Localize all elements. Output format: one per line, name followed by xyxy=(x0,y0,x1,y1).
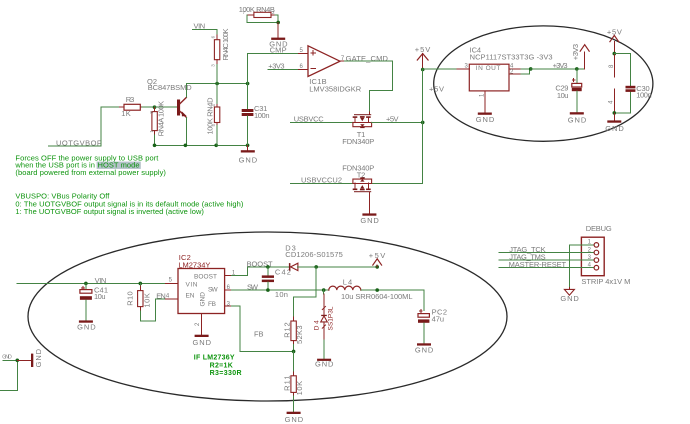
node base junction xyxy=(153,105,157,109)
svg-text:GND: GND xyxy=(200,292,207,307)
ground below C30 xyxy=(605,113,624,133)
node +5V junction xyxy=(421,68,425,72)
svg-text:NCP1117ST33T3G -3V3: NCP1117ST33T3G -3V3 xyxy=(470,52,553,61)
node emitter junction xyxy=(184,144,188,148)
svg-text:GND: GND xyxy=(315,360,334,369)
power +5V arrow top xyxy=(415,45,431,69)
svg-text:RN4A 100K: RN4A 100K xyxy=(157,101,166,137)
svg-text:RN4C 100K: RN4C 100K xyxy=(221,29,230,61)
node T1 rail junction xyxy=(421,121,425,125)
connector DEBUG STRIP 4x1V M xyxy=(581,224,630,286)
transistor Q2 xyxy=(147,77,192,117)
power +3V3 arrow xyxy=(571,44,589,69)
wire RN4C to junction xyxy=(216,64,218,83)
node RN4B junction xyxy=(276,21,280,25)
ground below D4 xyxy=(315,359,334,369)
resistor RN4C xyxy=(210,29,229,67)
wire CMP rail xyxy=(247,54,249,84)
ground below C41 xyxy=(77,320,96,331)
svg-text:GND: GND xyxy=(77,323,96,332)
svg-text:47u: 47u xyxy=(432,314,445,323)
capacitor C41 xyxy=(80,283,108,320)
svg-text:1K: 1K xyxy=(121,109,131,118)
svg-text:10u: 10u xyxy=(94,292,106,301)
ground far-left rotated xyxy=(17,348,43,367)
wire FB xyxy=(231,306,293,351)
wire L4 to PC2 xyxy=(361,290,424,310)
node IC4 out junction xyxy=(529,67,533,71)
regulator IC2 LM2734Y xyxy=(166,253,236,335)
ground arrow debug xyxy=(560,288,579,303)
wire base xyxy=(155,106,178,108)
svg-text:GND: GND xyxy=(568,115,587,124)
resistor RN4B xyxy=(239,5,275,17)
ground below RN4B xyxy=(269,22,288,48)
node C31 bottom xyxy=(246,144,250,148)
resistor R11 xyxy=(283,351,305,411)
svg-text:10u: 10u xyxy=(557,91,569,100)
ground below PC2 xyxy=(415,343,434,354)
svg-text:IN OUT: IN OUT xyxy=(476,65,501,72)
svg-text:DEBUG: DEBUG xyxy=(586,224,612,233)
node C42 top junction xyxy=(266,265,270,269)
wire Q2 emitter xyxy=(185,118,187,146)
node collector/C31 xyxy=(246,82,250,86)
wire USBVCCU2 to T2 xyxy=(291,182,353,184)
wire R3 to base node xyxy=(142,106,155,108)
diode D3 xyxy=(285,243,343,270)
svg-text:GND: GND xyxy=(605,124,624,133)
SECTION: top-left comparator circuit xyxy=(48,5,298,164)
node R10 junction xyxy=(139,282,143,286)
wire +5V to IC4 input xyxy=(423,68,458,70)
power +5V arrow C30 xyxy=(607,27,622,53)
svg-text:R2=1K: R2=1K xyxy=(210,362,233,369)
SECTION: right ellipse regulator xyxy=(423,26,653,141)
node +5V corner junction xyxy=(375,265,379,269)
svg-text:L4: L4 xyxy=(343,277,353,286)
svg-text:(board powered from external p: (board powered from external power suppl… xyxy=(15,168,166,177)
svg-text:GND: GND xyxy=(193,338,212,347)
resistor R10 xyxy=(126,283,152,320)
svg-text:GND: GND xyxy=(360,216,379,225)
op-amp IC1B xyxy=(298,46,361,94)
ground below IC2 xyxy=(193,335,212,348)
capacitor C42 xyxy=(262,267,291,299)
svg-text:R3=330R: R3=330R xyxy=(210,370,242,377)
wire MASTER-RESET xyxy=(499,267,581,269)
wire Q2 collector xyxy=(185,84,187,98)
wire pin1 to gnd xyxy=(569,245,581,288)
wire IC4 out pins join xyxy=(521,69,531,74)
SECTION: comments xyxy=(14,153,244,216)
resistor RN4D xyxy=(206,84,220,146)
svg-text:SW: SW xyxy=(208,286,219,293)
capacitor C30 xyxy=(614,54,651,113)
wire R10 to EN xyxy=(140,299,165,321)
svg-text:CMP: CMP xyxy=(270,46,287,55)
wire CMP xyxy=(248,53,299,55)
transistor T2 FDN340P xyxy=(342,164,374,198)
wire GATE_CMD to T1 gate xyxy=(345,61,393,112)
capacitor C29 xyxy=(555,69,581,112)
svg-text:+5V: +5V xyxy=(386,114,399,123)
svg-text:GND: GND xyxy=(476,115,495,124)
pin 4 IC1 power xyxy=(609,89,615,113)
highlight ellipse around LDO xyxy=(434,26,653,141)
svg-text:10K: 10K xyxy=(142,293,151,308)
transistor T1 FDN340P xyxy=(342,112,374,146)
wire RN4B loop to ground xyxy=(247,15,278,23)
resistor R3 xyxy=(120,95,142,118)
ground below C31 xyxy=(239,145,258,164)
svg-text:VIN: VIN xyxy=(95,276,107,285)
node IC1 pin8 junction xyxy=(613,52,617,56)
node L4 out junction xyxy=(375,288,379,292)
svg-text:R10: R10 xyxy=(126,291,135,306)
svg-text:BOOST: BOOST xyxy=(194,274,217,281)
svg-text:100n: 100n xyxy=(636,91,652,100)
SECTION: debug connector xyxy=(499,224,630,303)
svg-text:CD1206-S01575: CD1206-S01575 xyxy=(285,250,343,259)
node C42 bottom junction xyxy=(266,288,270,292)
pin 2 xyxy=(581,247,598,255)
capacitor C31 xyxy=(242,84,270,146)
node IC1 pin4 junction xyxy=(613,111,617,115)
ground below R11 xyxy=(285,412,304,424)
power +5V arrow buck xyxy=(369,251,386,267)
SECTION: op-amp and mosfets xyxy=(291,45,431,225)
svg-text:C42: C42 xyxy=(275,267,291,276)
wire D3 cathode to +5V xyxy=(297,266,377,268)
svg-text:SW: SW xyxy=(247,283,259,292)
wire T1 to +5V rail xyxy=(372,121,423,123)
node RN4D bottom xyxy=(214,144,218,148)
wire JTAG_TMS xyxy=(499,259,581,261)
svg-text:VIN: VIN xyxy=(186,282,198,289)
svg-text:GND: GND xyxy=(239,156,258,165)
svg-text:GND: GND xyxy=(285,415,304,424)
regulator IC4 NCP1117ST33T3G xyxy=(457,46,552,113)
svg-text:SS1P3L: SS1P3L xyxy=(328,306,335,330)
wire far-left gnd net xyxy=(0,360,17,390)
svg-text:GND: GND xyxy=(34,348,43,367)
svg-text:10K: 10K xyxy=(295,381,304,396)
resistor RN4A xyxy=(149,101,166,146)
node C41 junction xyxy=(84,282,88,286)
svg-text:1: The UOTGVBOF output signal: 1: The UOTGVBOF output signal is inverte… xyxy=(15,207,204,216)
wire +5V rail vertical xyxy=(372,70,423,184)
svg-text:STRIP 4x1V M: STRIP 4x1V M xyxy=(581,277,630,286)
diode D4 xyxy=(314,290,335,359)
wire +3V3 to op-amp xyxy=(268,68,298,70)
wire emitter rail xyxy=(155,144,248,146)
wire SW xyxy=(231,289,328,291)
svg-text:BC847BSMD: BC847BSMD xyxy=(148,83,193,92)
wire BOOST xyxy=(231,267,288,275)
wire VIN to RN4C xyxy=(193,29,218,35)
svg-text:+3V3: +3V3 xyxy=(571,44,580,60)
wire +5V feedback tap xyxy=(294,267,317,317)
resistor R12 xyxy=(283,321,305,351)
wire JTAG_TCK xyxy=(499,252,581,254)
svg-text:R12: R12 xyxy=(283,322,292,338)
wire USBVCC to T1 xyxy=(291,121,353,123)
wire collector rail xyxy=(186,83,247,85)
SECTION: big ellipse buck converter xyxy=(0,232,507,424)
svg-text:52K3: 52K3 xyxy=(295,326,304,345)
svg-text:FB: FB xyxy=(208,301,216,308)
inductor L4 xyxy=(329,277,413,301)
svg-text:MASTER-RESET: MASTER-RESET xyxy=(509,260,567,269)
svg-text:EN: EN xyxy=(156,291,166,300)
svg-text:GND: GND xyxy=(415,346,434,355)
wire +3V3 out xyxy=(531,68,585,70)
node far-left junction xyxy=(15,359,19,363)
comment line 2 with highlight xyxy=(97,162,141,169)
svg-text:100K RN4D: 100K RN4D xyxy=(206,97,215,135)
svg-text:+3V3: +3V3 xyxy=(553,61,568,70)
svg-text:+5V: +5V xyxy=(429,85,444,94)
node emitter rail left xyxy=(153,144,157,148)
pin 3 xyxy=(581,255,598,263)
svg-text:EN: EN xyxy=(186,293,195,300)
svg-text:LMV358IDGKR: LMV358IDGKR xyxy=(309,84,362,93)
svg-text:R11: R11 xyxy=(283,375,292,391)
pin 1 xyxy=(581,240,598,248)
svg-text:IF LM2736Y: IF LM2736Y xyxy=(194,355,235,362)
svg-text:10u SRR0604-100ML: 10u SRR0604-100ML xyxy=(341,292,413,301)
svg-text:100n: 100n xyxy=(254,111,270,120)
capacitor PC2 xyxy=(418,308,447,344)
node D4 junction xyxy=(322,288,326,292)
svg-text:R3: R3 xyxy=(126,95,135,104)
highlight ellipse around buck converter xyxy=(28,232,507,401)
pin 4 xyxy=(581,263,598,271)
node R12 tap junction xyxy=(314,265,318,269)
svg-text:10n: 10n xyxy=(275,290,288,299)
ground below T2 xyxy=(360,198,379,225)
svg-text:GND: GND xyxy=(2,355,12,361)
node collector/RN4C xyxy=(215,82,219,86)
pin 8 IC1 power xyxy=(609,54,615,77)
wire VIN rail xyxy=(17,282,165,284)
node FB junction xyxy=(292,350,296,354)
svg-text:GND: GND xyxy=(560,294,579,303)
ground below C29 xyxy=(568,112,587,124)
ground below IC4 xyxy=(476,113,495,125)
svg-text:FB: FB xyxy=(254,330,264,339)
node C29 junction xyxy=(575,67,579,71)
wire UOTGVBOF to R3 xyxy=(48,107,119,146)
svg-text:FDN340P: FDN340P xyxy=(342,137,374,146)
